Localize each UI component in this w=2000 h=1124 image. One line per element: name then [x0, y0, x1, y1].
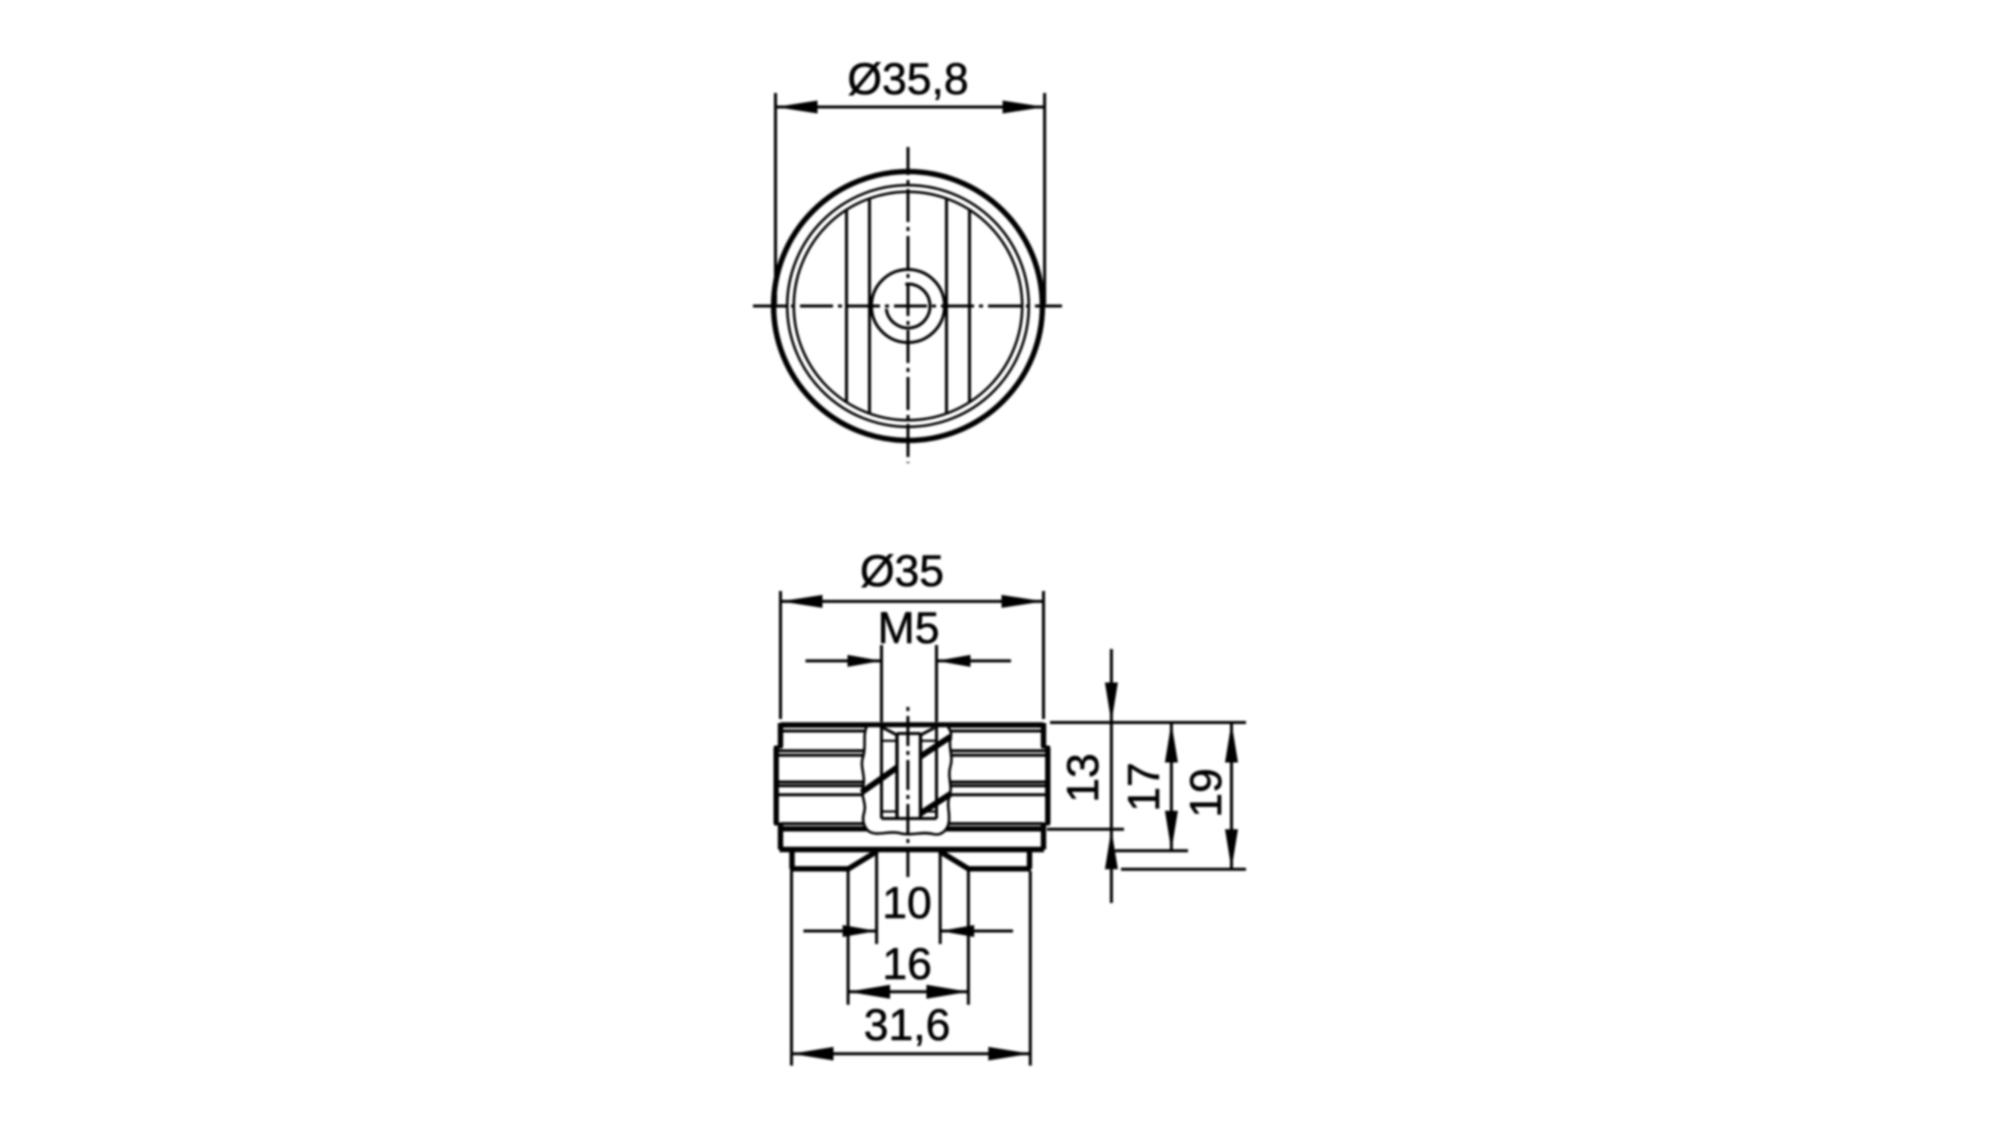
slot edge bar right outer: [968, 209, 971, 402]
groove line 7: [781, 822, 1044, 825]
svg-text:10: 10: [882, 879, 932, 928]
arrowhead down: [1225, 829, 1238, 869]
leader line left: [803, 930, 876, 933]
leader line right: [937, 659, 1012, 662]
arrowhead left: [776, 101, 818, 114]
svg-text:31,6: 31,6: [864, 1001, 951, 1050]
body right edge upper: [1041, 723, 1046, 747]
extension line left: [790, 871, 793, 1066]
extension line left: [880, 645, 883, 722]
foot left bottom: [790, 866, 849, 871]
arrowhead right (points left): [937, 655, 971, 667]
section break wavy outline: [862, 727, 951, 834]
thread pitch tick upper right: [921, 740, 937, 742]
dimension line: [781, 600, 1044, 603]
chamfer top right: [921, 728, 935, 735]
body right edge lower: [1041, 824, 1046, 850]
section cut white background: [862, 727, 951, 834]
thread arc (3/4 circle): [886, 284, 930, 328]
arrowhead right: [1002, 595, 1044, 608]
arrowhead up: [1225, 723, 1238, 763]
inner ring thin circle: [787, 185, 1029, 427]
extension line right: [935, 645, 938, 722]
extension line right: [967, 871, 970, 1005]
arrowhead up: [1105, 829, 1118, 869]
extension line left: [774, 93, 777, 304]
body band step left bottom: [774, 823, 782, 826]
centerline horizontal (top view): [753, 305, 1062, 308]
thread hole bottom line: [882, 817, 937, 820]
dimension line between: [1110, 723, 1113, 830]
dimension line: [848, 990, 968, 993]
thread root line right: [919, 734, 922, 819]
body band step right bottom: [1042, 823, 1050, 826]
thread crest line left: [880, 727, 883, 819]
foot right chamfer diagonal: [940, 851, 970, 869]
hatch stroke 2: [921, 737, 951, 757]
svg-text:16: 16: [882, 940, 932, 989]
dimension line: [776, 106, 1045, 109]
body top bold line: [781, 722, 1044, 727]
svg-text:17: 17: [1120, 762, 1169, 812]
groove line 1: [781, 730, 1044, 733]
thread pitch tick lower left: [882, 810, 898, 812]
outer ring bold circle: [774, 172, 1043, 441]
leader below: [1110, 829, 1113, 903]
thread root line left: [895, 734, 898, 819]
flange bottom bold line: [780, 847, 1045, 852]
dimension line: [792, 1052, 1031, 1055]
body band step right top: [1042, 746, 1050, 749]
foot right bottom: [968, 866, 1031, 871]
arrowhead left (points right): [848, 655, 882, 667]
body right band edge: [1045, 747, 1050, 824]
extension line right (channel wall): [939, 852, 942, 944]
arrowhead left: [792, 1047, 834, 1061]
slot edge bar left outer: [845, 209, 848, 402]
arrowhead right: [988, 1047, 1030, 1061]
svg-text:19: 19: [1182, 768, 1231, 818]
svg-text:13: 13: [1059, 753, 1108, 803]
leader above: [1110, 649, 1113, 723]
thread root top line: [897, 732, 921, 735]
thread pitch tick lower right: [921, 810, 937, 812]
arrowhead left-pointing: [940, 925, 974, 937]
body left edge upper: [778, 723, 783, 747]
reference line top: [1050, 721, 1246, 724]
arrowhead right: [1003, 101, 1045, 114]
slot edge bar right inner: [945, 198, 948, 414]
arrowhead right-pointing: [843, 925, 877, 937]
centerline vertical (side view): [906, 706, 909, 877]
svg-text:Ø35,8: Ø35,8: [847, 55, 968, 104]
arrowhead left: [848, 985, 890, 999]
ball silhouette circle: [794, 192, 1022, 420]
groove line 4: [776, 781, 1048, 784]
arrowhead up: [1165, 723, 1178, 763]
extension line right: [1043, 93, 1046, 304]
svg-text:M5: M5: [878, 604, 940, 653]
reference line bottom 13: [1047, 828, 1124, 831]
dimension line: [1170, 723, 1173, 851]
extension line left: [779, 591, 782, 719]
foot right outer edge: [1027, 850, 1032, 869]
body band step left top: [774, 746, 782, 749]
slot edge bar left inner: [868, 198, 871, 414]
arrowhead right: [926, 985, 968, 999]
body left band edge: [774, 747, 779, 824]
foot left chamfer diagonal: [848, 851, 878, 869]
thread crest line right: [935, 727, 938, 819]
reference line bottom 19: [1121, 868, 1246, 871]
extension line left: [847, 871, 850, 1005]
foot left outer edge: [789, 850, 794, 869]
groove line 2: [776, 749, 1048, 752]
body bottom bold line: [781, 826, 1044, 831]
chamfer top left: [883, 728, 897, 735]
leader line left: [806, 659, 882, 662]
groove line 6: [776, 793, 1048, 796]
arrowhead down: [1105, 683, 1118, 723]
extension line right: [1029, 871, 1032, 1066]
reference line bottom 17: [1115, 849, 1188, 852]
thread pitch tick upper left: [882, 740, 898, 742]
center hole circle: [872, 270, 945, 343]
groove line 5: [776, 784, 1048, 787]
dimension line: [1230, 723, 1233, 870]
centerline vertical (top view): [907, 147, 910, 463]
leader line right: [940, 930, 1013, 933]
groove line 3: [776, 754, 1048, 757]
hatch stroke 1: [862, 768, 898, 793]
body left edge lower: [778, 824, 783, 850]
extension line left (channel wall): [875, 852, 878, 944]
arrowhead down: [1165, 811, 1178, 851]
hatch stroke 3: [921, 794, 951, 814]
arrowhead left: [781, 595, 823, 608]
svg-text:Ø35: Ø35: [860, 547, 944, 596]
extension line right: [1042, 591, 1045, 719]
